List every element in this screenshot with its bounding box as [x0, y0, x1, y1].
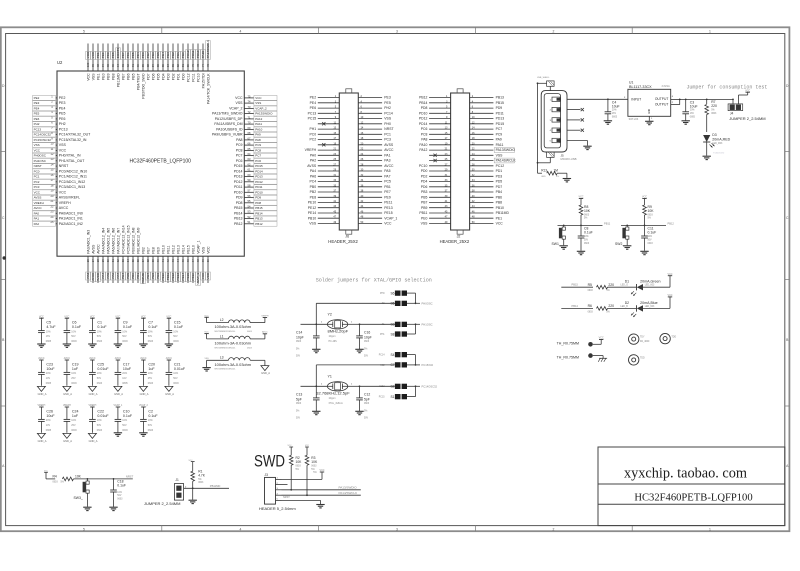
wire D3 to gnd — [706, 142, 708, 156]
node PB0 bottom — [131, 272, 136, 280]
svg-text:VCC: VCC — [59, 149, 67, 153]
svg-text:PB0/ADC12_IN8: PB0/ADC12_IN8 — [131, 227, 135, 253]
svg-text:NRST: NRST — [34, 164, 42, 168]
svg-text:0805: 0805 — [690, 116, 696, 118]
J2 pin 15 wire — [429, 133, 451, 135]
J2 pin 17 wire — [429, 139, 451, 141]
node PA6 bottom — [111, 272, 116, 280]
svg-text:PH1OSC: PH1OSC — [422, 322, 433, 326]
mcu pin 18 left wire — [56, 186, 57, 188]
node PA5 bottom — [106, 272, 111, 280]
svg-text:50V: 50V — [296, 418, 301, 420]
svg-text:C14: C14 — [296, 331, 302, 335]
svg-text:0.01uF: 0.01uF — [97, 414, 109, 418]
svg-text:20%: 20% — [612, 110, 617, 112]
svg-text:PC7: PC7 — [255, 154, 261, 158]
svg-text:0603: 0603 — [117, 499, 123, 501]
svg-text:PH0OSC: PH0OSC — [34, 154, 47, 158]
svg-text:PE2: PE2 — [59, 96, 66, 100]
svg-text:PE10: PE10 — [161, 245, 165, 254]
J6 pin 26 wire — [358, 160, 382, 162]
ground C8 — [577, 250, 585, 252]
svg-text:PD0: PD0 — [181, 52, 185, 58]
J6 pin 30 wire — [358, 170, 382, 172]
svg-text:5%: 5% — [584, 218, 587, 220]
mcu pin 64 right wire — [244, 155, 254, 157]
J2 pin 26 wire — [470, 160, 494, 162]
ground D3 — [703, 155, 711, 157]
title block box — [598, 447, 785, 526]
svg-text:PB0: PB0 — [131, 273, 135, 279]
node PB8 top — [111, 51, 116, 59]
ground SW2 — [623, 245, 631, 247]
svg-text:PA10: PA10 — [255, 127, 262, 131]
svg-text:PC4/ADC12_IN14: PC4/ADC12_IN14 — [121, 225, 125, 253]
mcu pin 74 right wire — [244, 102, 254, 104]
svg-text:C13: C13 — [296, 393, 302, 397]
wire Y1 to jumper S2 — [360, 385, 395, 387]
svg-text:PB7: PB7 — [121, 73, 125, 80]
node VREFH left — [33, 200, 56, 205]
J5 pin 4 contact — [552, 128, 560, 132]
J2 pin 4 wire — [470, 102, 494, 104]
J2 pin 10 wire — [470, 118, 494, 120]
svg-text:PC12: PC12 — [186, 50, 190, 58]
ground J1 — [192, 488, 194, 500]
J2 pin 2 wire — [470, 97, 494, 99]
J6 pin 4 wire — [358, 102, 382, 104]
svg-text:PD13: PD13 — [496, 117, 505, 121]
svg-text:PA4: PA4 — [310, 169, 316, 173]
J6 pin 16 wire — [358, 133, 382, 135]
svg-text:PE13: PE13 — [176, 245, 180, 254]
svg-text:PD9: PD9 — [496, 106, 503, 110]
svg-text:LED_603: LED_603 — [645, 285, 655, 287]
J6 pin 41 wire — [318, 202, 340, 204]
svg-text:PB15: PB15 — [234, 206, 243, 210]
svg-text:Solder jumpers for XTAL/GPIO s: Solder jumpers for XTAL/GPIO selection — [316, 277, 432, 283]
svg-text:PD1: PD1 — [176, 52, 180, 58]
node PA15 top — [201, 50, 206, 60]
node PC14OSC32 left — [33, 132, 56, 137]
mcu pin 43 bottom wire — [172, 256, 174, 283]
svg-text:PB11MD: PB11MD — [210, 484, 221, 488]
J6 pin 10 wire — [358, 118, 382, 120]
svg-text:0.1uF: 0.1uF — [648, 231, 657, 235]
svg-text:PD4: PD4 — [161, 52, 165, 58]
svg-text:32.768KHz,12.5pF: 32.768KHz,12.5pF — [316, 391, 350, 396]
svg-text:OUTPUT: OUTPUT — [655, 97, 669, 101]
svg-text:PA1/ADC1_IN1: PA1/ADC1_IN1 — [59, 217, 83, 221]
svg-text:PE9: PE9 — [156, 273, 160, 279]
node PB15 right — [254, 206, 277, 211]
svg-text:PA9/USBFS_VUBR: PA9/USBFS_VUBR — [212, 133, 243, 137]
J6 pin 13 wire — [318, 128, 340, 130]
resistor R13 1M — [537, 163, 539, 173]
svg-text:VCAP_1: VCAP_1 — [384, 216, 397, 220]
mcu pin 29 bottom wire — [102, 256, 104, 283]
svg-text:VSS: VSS — [235, 101, 243, 105]
border zone ticks bottom — [161, 526, 163, 532]
svg-text:PA14/SWCLK: PA14/SWCLK — [339, 491, 358, 495]
svg-text:J6: J6 — [345, 234, 349, 238]
node PB3 top — [141, 51, 146, 59]
svg-text:SOT-223: SOT-223 — [629, 118, 639, 121]
svg-text:S1: S1 — [390, 395, 394, 399]
svg-text:R2_4000: R2_4000 — [640, 341, 650, 343]
J6 pin 18 wire — [358, 139, 382, 141]
mcu pin 11 left wire — [56, 149, 57, 151]
mcu pin 5 left wire — [56, 118, 57, 120]
wire Y1 to jumper S7 — [315, 365, 317, 386]
mcu pin 71 right wire — [244, 118, 254, 120]
ground GND_A C23 — [37, 386, 45, 391]
mcu pin 42 bottom wire — [167, 256, 169, 283]
svg-text:PD2: PD2 — [171, 52, 175, 58]
svg-text:PA2: PA2 — [310, 159, 316, 163]
J6 pin 12 wire — [358, 123, 382, 125]
svg-text:PB15: PB15 — [496, 101, 504, 105]
connector J2 body — [451, 93, 470, 230]
J2 pin 14 wire — [470, 128, 494, 130]
J6 pin 39 wire — [318, 196, 340, 198]
svg-text:VSS: VSS — [59, 143, 67, 147]
mcu pin 70 right wire — [244, 123, 254, 125]
svg-text:0603: 0603 — [97, 340, 103, 343]
node PH0OSC left — [33, 153, 56, 158]
svg-text:PD11: PD11 — [234, 185, 243, 189]
svg-text:PA12: PA12 — [419, 148, 427, 152]
J6 pin 29 wire — [318, 170, 340, 172]
svg-text:0603: 0603 — [122, 429, 128, 432]
svg-text:PB2MD: PB2MD — [141, 272, 145, 283]
mcu pin 97 top wire — [102, 44, 104, 72]
svg-text:PB8: PB8 — [496, 201, 503, 205]
mcu pin 44 bottom wire — [177, 256, 179, 283]
svg-text:VSS: VSS — [384, 117, 392, 121]
svg-text:AVCC: AVCC — [96, 244, 100, 254]
mcu pin 3 left wire — [56, 107, 57, 109]
mcu pin 95 top wire — [112, 44, 114, 72]
svg-text:XTAL_3x8mm: XTAL_3x8mm — [329, 402, 343, 405]
J6 pin 21 wire — [318, 149, 340, 151]
svg-text:PC1: PC1 — [384, 132, 391, 136]
svg-text:PB1: PB1 — [136, 273, 140, 279]
svg-text:PE7: PE7 — [384, 190, 391, 194]
svg-text:1uF: 1uF — [72, 367, 79, 371]
node PB14 right — [254, 211, 277, 216]
node VSS right — [254, 101, 277, 106]
svg-text:PE15: PE15 — [186, 245, 190, 254]
svg-text:PE6: PE6 — [34, 117, 40, 121]
svg-text:PD7: PD7 — [146, 52, 150, 58]
svg-text:PC10: PC10 — [419, 164, 428, 168]
svg-text:U2: U2 — [57, 60, 63, 65]
svg-text:D2: D2 — [625, 301, 629, 305]
svg-text:PA1: PA1 — [34, 217, 40, 221]
svg-text:10ppm: 10ppm — [329, 398, 336, 400]
capacitor C11 0.1uF — [644, 225, 646, 236]
node PD1 top — [176, 51, 181, 59]
ground C16 — [355, 348, 363, 350]
svg-text:PC13: PC13 — [59, 128, 68, 132]
node VCC bottom — [206, 272, 211, 280]
svg-text:C22: C22 — [97, 409, 104, 413]
svg-text:PD12: PD12 — [234, 180, 243, 184]
svg-text:10uF: 10uF — [46, 367, 55, 371]
svg-text:VCC: VCC — [384, 222, 392, 226]
node PE2 left — [33, 96, 56, 101]
svg-text:PA11/USBFS_DM: PA11/USBFS_DM — [214, 122, 242, 126]
J6 pin 33 wire — [318, 181, 340, 183]
node PB12 right — [254, 221, 277, 226]
svg-text:PE7: PE7 — [146, 273, 150, 279]
J6 pin 1 wire — [318, 97, 340, 99]
svg-text:PB2: PB2 — [310, 190, 317, 194]
svg-text:PB3: PB3 — [421, 190, 428, 194]
svg-text:5%: 5% — [296, 348, 299, 350]
svg-text:PD11: PD11 — [255, 185, 263, 189]
node PA4 bottom — [101, 272, 106, 280]
mcu pin 56 right wire — [244, 197, 254, 199]
svg-text:VCAP_2: VCAP_2 — [255, 106, 267, 110]
svg-text:PC8: PC8 — [421, 132, 428, 136]
svg-text:4: 4 — [240, 527, 242, 531]
node PC15OSC32 left — [33, 138, 56, 143]
ground C12 — [355, 410, 363, 412]
J6 pin 36 wire — [358, 186, 382, 188]
svg-text:10K: 10K — [75, 474, 82, 478]
svg-text:50V: 50V — [122, 335, 127, 338]
svg-text:0603: 0603 — [97, 429, 103, 432]
svg-text:PA9: PA9 — [496, 138, 502, 142]
mcu pin 17 left wire — [56, 181, 57, 183]
svg-text:5%: 5% — [606, 311, 609, 313]
svg-text:PD11: PD11 — [496, 111, 504, 115]
svg-text:VSS: VSS — [309, 222, 317, 226]
J6 pin 17 wire — [318, 139, 340, 141]
svg-text:0603: 0603 — [148, 340, 154, 343]
svg-text:C10: C10 — [123, 409, 130, 413]
ground GND_A C21 — [165, 386, 173, 391]
J5 pin 5 contact — [552, 138, 560, 142]
ground C10 — [114, 432, 122, 434]
node PE14 bottom — [181, 272, 186, 282]
svg-text:1: 1 — [709, 29, 711, 33]
svg-text:VSS: VSS — [255, 101, 261, 105]
mcu pin 76 top wire — [207, 44, 209, 72]
svg-text:PD8: PD8 — [236, 201, 243, 205]
svg-text:PD3: PD3 — [166, 73, 170, 80]
svg-text:VCC: VCC — [206, 272, 210, 279]
J2 pin 22 wire — [470, 149, 494, 151]
svg-text:5%: 5% — [364, 410, 367, 412]
svg-text:PA7/ADC12_IN7: PA7/ADC12_IN7 — [116, 228, 120, 254]
svg-text:VSS: VSS — [205, 358, 210, 360]
node PD7 top — [146, 51, 151, 59]
svg-text:PC5/ADC12_IN15: PC5/ADC12_IN15 — [126, 225, 130, 253]
svg-text:PH1: PH1 — [380, 334, 385, 336]
node PE13 bottom — [176, 272, 181, 282]
capacitor C4 10uF — [607, 98, 609, 100]
J2 pin 47 wire — [429, 217, 451, 219]
ground C2 — [139, 432, 147, 434]
J2 pin 31 wire — [429, 175, 451, 177]
mcu pin 38 bottom wire — [147, 256, 149, 283]
svg-text:GND_A: GND_A — [114, 392, 123, 396]
J2 pin 41 wire — [429, 202, 451, 204]
svg-text:NFZ2MSM331SN10L: NFZ2MSM331SN10L — [215, 331, 237, 333]
J5 pin 1 contact — [552, 97, 560, 101]
svg-text:C26: C26 — [46, 409, 53, 413]
svg-text:PA11: PA11 — [496, 143, 504, 147]
node PC2 left — [33, 179, 56, 184]
wire SW2 node — [621, 224, 666, 226]
mcu pin 87 top wire — [152, 44, 154, 72]
svg-text:0.1uF: 0.1uF — [123, 325, 133, 329]
node PE7 bottom — [146, 272, 151, 280]
svg-text:PA0: PA0 — [310, 153, 316, 157]
svg-text:PC1/ADC12_IN11: PC1/ADC12_IN11 — [59, 175, 87, 179]
svg-text:C23: C23 — [46, 362, 53, 366]
node PB9 top — [106, 51, 111, 59]
svg-text:TDY: TDY — [640, 336, 645, 338]
svg-text:PD15: PD15 — [255, 164, 263, 168]
J3 pin 2 wire — [276, 484, 282, 486]
svg-text:10ppm: 10ppm — [329, 336, 336, 338]
mcu pin 1 left wire — [56, 97, 57, 99]
mcu pin 4 left wire — [56, 113, 57, 115]
ground C18 — [109, 506, 117, 508]
mcu pin 22 left wire — [56, 207, 57, 209]
ground GND_A C19 — [63, 386, 71, 391]
svg-text:0603: 0603 — [711, 113, 717, 115]
svg-text:0603: 0603 — [198, 482, 204, 484]
mcu pin 84 top wire — [167, 44, 169, 72]
svg-text:VREFH: VREFH — [59, 201, 71, 205]
svg-text:PB0: PB0 — [310, 185, 317, 189]
svg-text:NRST: NRST — [384, 127, 393, 131]
svg-text:PH0/XTAL_IN: PH0/XTAL_IN — [59, 154, 81, 158]
node PH2 left — [33, 122, 56, 127]
mcu pin 55 right wire — [244, 202, 254, 204]
svg-text:0.1uF: 0.1uF — [123, 414, 133, 418]
wire D1 to VCC — [643, 286, 670, 288]
svg-text:PE9: PE9 — [384, 195, 391, 199]
svg-text:PE0: PE0 — [101, 52, 105, 58]
node PA2 left — [33, 221, 56, 226]
svg-text:HEADER_25X2: HEADER_25X2 — [328, 239, 358, 244]
svg-text:GND_A: GND_A — [38, 439, 47, 443]
svg-text:PH2: PH2 — [59, 122, 66, 126]
svg-text:PC0: PC0 — [309, 132, 316, 136]
J6 pin 22 wire — [358, 149, 382, 151]
ground C5 — [37, 343, 45, 345]
svg-text:PD6: PD6 — [421, 185, 428, 189]
svg-text:R6: R6 — [588, 304, 592, 308]
J2 pin 23 wire — [429, 154, 451, 156]
mcu pin 75 right wire — [244, 97, 254, 99]
wire Y2 to jumper S5 — [315, 303, 317, 324]
svg-text:0603: 0603 — [71, 340, 77, 343]
node PA8 right — [254, 138, 277, 143]
svg-text:PE11: PE11 — [166, 245, 170, 253]
svg-text:25V: 25V — [71, 424, 76, 427]
node PC7 right — [254, 153, 277, 158]
svg-text:220: 220 — [711, 104, 717, 108]
node PD4 top — [161, 51, 166, 59]
svg-text:PA0/ADC1_IN0: PA0/ADC1_IN0 — [59, 211, 83, 215]
LED D1 Green — [637, 284, 643, 290]
svg-text:PC7: PC7 — [496, 127, 503, 131]
J3 pin 5 wire — [276, 499, 282, 501]
svg-text:50V: 50V — [148, 424, 153, 427]
svg-text:PC2: PC2 — [34, 180, 40, 184]
mcu pin 19 left wire — [56, 191, 57, 193]
J2 pin 30 wire — [470, 170, 494, 172]
svg-text:PE0: PE0 — [101, 73, 105, 80]
node PC3 left — [33, 185, 56, 190]
wire D1 row — [561, 286, 593, 288]
svg-text:PA2/ADC1_IN2: PA2/ADC1_IN2 — [59, 222, 83, 226]
svg-text:0603: 0603 — [584, 243, 590, 245]
svg-text:0603: 0603 — [148, 429, 154, 432]
mcu pin 57 right wire — [244, 191, 254, 193]
mcu pin 12 left wire — [56, 155, 57, 157]
svg-text:PE4: PE4 — [59, 107, 66, 111]
svg-text:VSS: VSS — [201, 246, 205, 254]
svg-text:AVSS: AVSS — [91, 273, 95, 281]
node PD10 right — [254, 190, 277, 195]
svg-text:PC3: PC3 — [384, 138, 391, 142]
svg-text:PC0: PC0 — [34, 169, 40, 173]
node PC5 bottom — [126, 272, 131, 280]
J2 pin 48 wire — [470, 217, 494, 219]
svg-text:PC11: PC11 — [191, 73, 195, 82]
J2 pin 35 wire — [429, 186, 451, 188]
mcu pin 62 right wire — [244, 165, 254, 167]
svg-text:0.1uF: 0.1uF — [174, 325, 184, 329]
J2 pin 43 wire — [429, 207, 451, 209]
ground GND_A C20 — [139, 386, 147, 391]
svg-text:PE4: PE4 — [310, 101, 317, 105]
svg-text:10V: 10V — [122, 377, 127, 380]
svg-text:50V: 50V — [364, 356, 369, 358]
J3 pin 1 wire — [276, 478, 282, 480]
svg-text:S4: S4 — [390, 353, 394, 357]
mcu pin 49 bottom wire — [202, 256, 204, 283]
svg-text:PD3: PD3 — [166, 52, 170, 58]
border zone ticks top — [161, 27, 163, 33]
node PD14 right — [254, 169, 277, 174]
svg-text:C17: C17 — [123, 362, 130, 366]
svg-text:25V: 25V — [148, 377, 153, 380]
svg-text:PE5: PE5 — [34, 112, 40, 116]
J6 pin 6 wire — [358, 107, 382, 109]
connector J6 body — [339, 93, 358, 230]
svg-text:PE12: PE12 — [171, 273, 175, 281]
svg-text:PD6: PD6 — [151, 73, 155, 80]
svg-text:Y2: Y2 — [328, 313, 332, 317]
svg-text:5%: 5% — [198, 479, 201, 481]
ground GND_A C17 — [114, 386, 122, 391]
J2 pin 20 wire — [470, 144, 494, 146]
svg-text:C16: C16 — [364, 331, 370, 335]
mcu pin 85 top wire — [162, 44, 164, 72]
J6 pin 28 wire — [358, 165, 382, 167]
test point TP1 — [629, 334, 639, 344]
svg-text:xyxchip. taobao. com: xyxchip. taobao. com — [624, 466, 747, 482]
